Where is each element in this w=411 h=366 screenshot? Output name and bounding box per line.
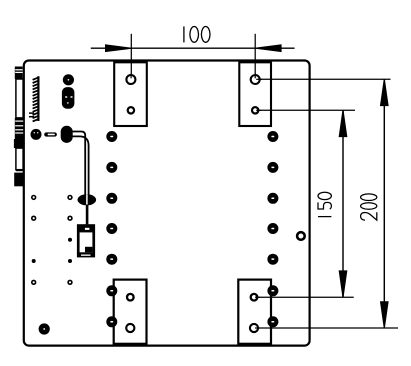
extension line right (100 dim) [254,34,256,74]
big dot bottom-left [39,323,50,334]
equal marks [29,113,34,117]
dimension line 150 [342,110,344,297]
slot [44,132,57,136]
bracket bottom-right [238,280,271,344]
stud column right x273 [267,131,278,327]
extension line y110 (150 dim top) [259,109,355,111]
stud column left x112 [106,131,117,327]
bracket bottom-left [114,280,147,344]
wire [71,132,89,195]
round component top [63,74,74,85]
arrow left of 100 dim [106,45,131,52]
connector body 1 [16,79,23,118]
extension line left (100 dim) [130,34,132,74]
capsule component [62,87,75,109]
hole top-right bracket upper [251,75,260,84]
text 200 (rotated) [361,194,377,220]
connector solid block [14,139,24,148]
relay component [77,224,95,257]
hatch band [33,76,39,121]
arrow top of 200 dim [381,80,388,106]
hole top-left bracket lower [128,107,134,113]
bracket top-left [114,62,147,126]
small filled mark col A [32,259,36,263]
dimension line 100 [91,47,295,49]
small hole column A x33.7 [32,196,36,285]
wire end blob [78,194,97,205]
text 100 [184,26,210,42]
arrow bottom of 200 dim [381,302,388,328]
cable gland [61,126,73,143]
ring near right edge [297,232,305,240]
plate outline [24,61,310,346]
wire tail [86,205,89,225]
arrow right of 100 dim [256,45,281,52]
bracket top-right [239,62,271,126]
small filled marks col B [68,238,72,242]
hole bottom-left bracket lower [126,324,134,332]
lug circle [31,129,42,140]
extension line y297 (150 dim bottom) [258,296,354,298]
small hole column B x70 [68,196,72,285]
hole bottom-right bracket lower [250,324,258,332]
hole bottom-left bracket upper [127,294,134,301]
arrow top of 150 dim [339,111,346,137]
connector striped block [15,118,24,139]
hole top-right bracket lower [252,107,258,113]
hole bottom-right bracket upper [251,294,258,301]
connector stack on left edge: cap 1 [15,67,23,80]
hole top-left bracket upper [126,75,135,84]
dimension line 200 [383,79,385,328]
connector bar [16,170,23,172]
arrow bottom of 150 dim [339,271,346,297]
extension line y328 (200 dim bottom) [258,327,398,329]
extension line y79 (200 dim top) [260,78,391,80]
connector body 2 [16,148,23,170]
connector bottom block [14,173,23,187]
text 150 (rotated) [318,192,331,216]
stud pinholes [110,136,274,323]
